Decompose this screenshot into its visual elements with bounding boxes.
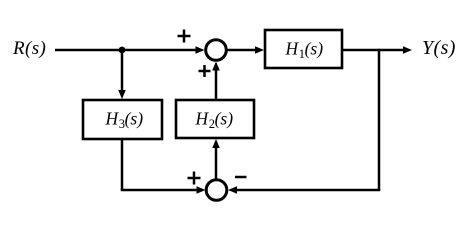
svg-text:(s): (s) <box>125 109 144 129</box>
plus sign at S1 left input <box>178 30 191 43</box>
input label R(s) <box>12 38 46 59</box>
block H3 <box>83 100 162 139</box>
block H2 <box>176 100 254 138</box>
feedback wire from output branch down and left to S2 <box>228 49 380 194</box>
wire S2 up to block H2 <box>212 139 220 179</box>
svg-text:H: H <box>195 109 210 129</box>
svg-text:(s): (s) <box>215 109 234 129</box>
output label Y(s) <box>422 37 456 59</box>
svg-text:Y(s): Y(s) <box>422 37 456 59</box>
plus sign at S1 bottom input <box>199 65 211 77</box>
wire H1 to output Y(s) <box>343 46 412 54</box>
block H1 <box>265 30 342 68</box>
node branch dot on input wire <box>119 47 126 54</box>
wire H3 down and right to summing junction S2 <box>121 139 206 194</box>
svg-text:(s): (s) <box>305 39 324 59</box>
summing junction S2 <box>206 180 227 201</box>
wire H2 up to summing junction S1 <box>212 62 220 101</box>
summing junction S1 <box>206 40 227 61</box>
wire branch down from input node to block H3 <box>118 50 126 99</box>
svg-text:R(s): R(s) <box>12 38 46 59</box>
svg-text:H: H <box>285 39 300 59</box>
minus sign at S2 right input <box>235 176 247 179</box>
wire R(s) to summing junction S1 <box>55 46 205 54</box>
plus sign at S2 left input <box>188 172 201 185</box>
svg-text:H: H <box>105 109 120 129</box>
wire S1 to block H1 <box>228 46 265 54</box>
